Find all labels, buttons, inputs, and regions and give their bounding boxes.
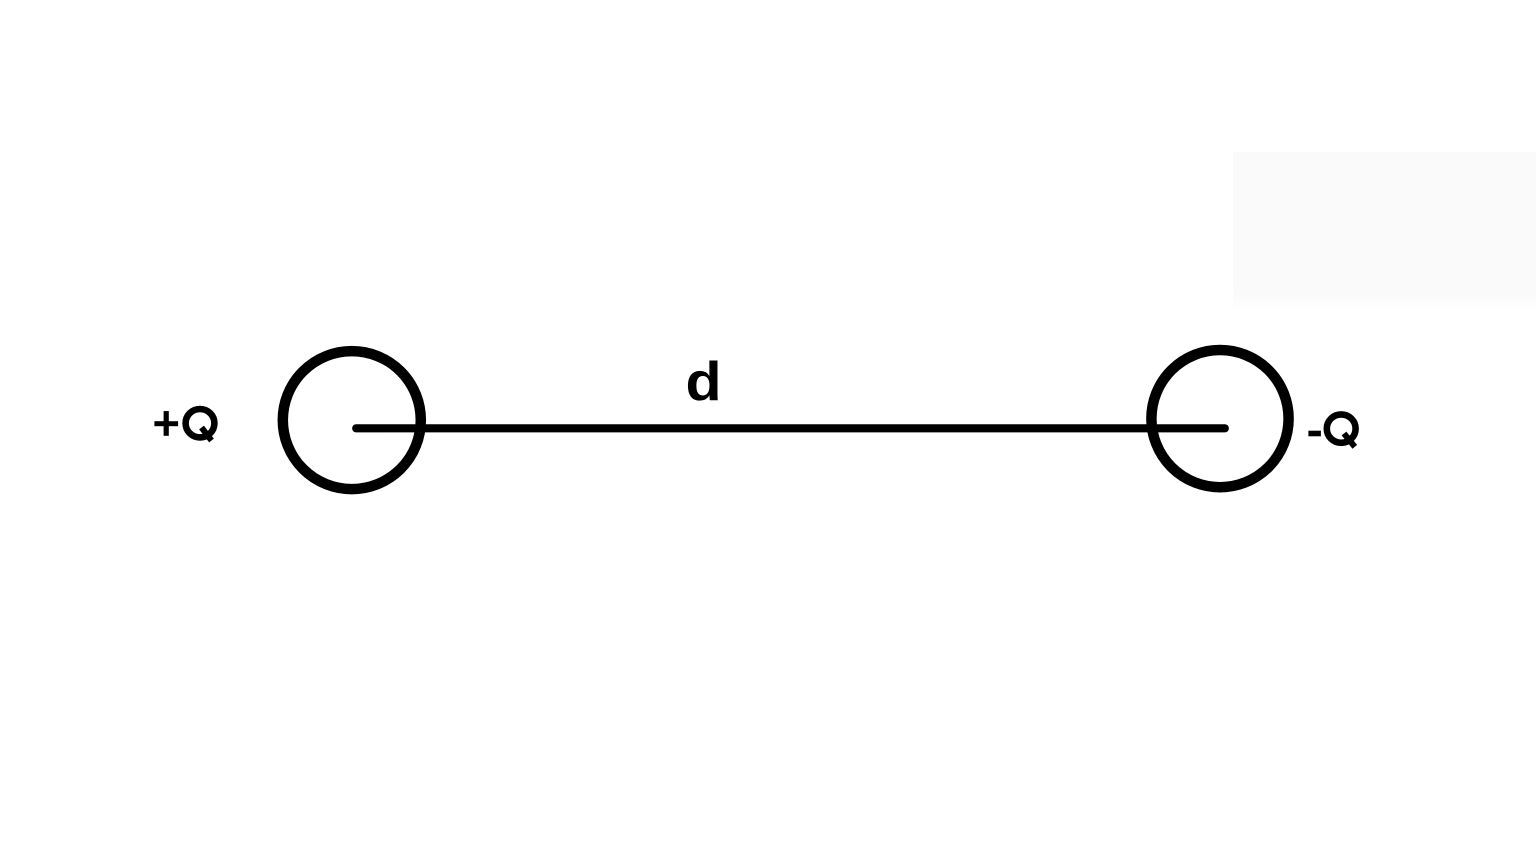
label +Q xyxy=(154,409,214,441)
label -Q xyxy=(1308,414,1355,446)
charge ball +Q (left circle) xyxy=(283,351,421,489)
charge ball -Q (right circle) xyxy=(1151,350,1288,487)
svg-text:d: d xyxy=(686,351,722,413)
wire: separation line d between charges xyxy=(356,424,1225,432)
